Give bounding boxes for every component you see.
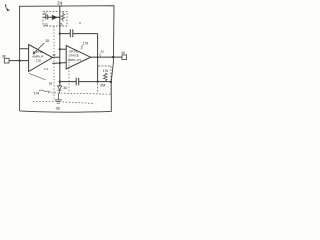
dashed vertical mid — [68, 59, 70, 94]
wire input — [9, 49, 29, 61]
svg-text:30: 30 — [44, 12, 48, 16]
diode arrow — [52, 16, 56, 20]
wire output — [91, 56, 122, 58]
svg-text:42: 42 — [101, 50, 105, 54]
wire bottom feedback — [60, 81, 111, 83]
label 2M — [100, 83, 105, 87]
node A — [59, 17, 61, 19]
svg-text:34: 34 — [63, 86, 67, 90]
stray mark — [79, 22, 81, 24]
dashed bus A — [48, 93, 111, 94]
diode D2 — [58, 86, 62, 94]
svg-text:38: 38 — [2, 54, 6, 58]
label 42 leader — [101, 50, 105, 54]
svg-text:174: 174 — [33, 91, 39, 95]
label 176 — [83, 42, 89, 46]
svg-text:176: 176 — [83, 42, 89, 46]
svg-text:28: 28 — [45, 39, 49, 43]
capacitor C2 — [70, 29, 73, 37]
outer amplifier box — [20, 6, 114, 112]
op-amp U2 — [66, 46, 90, 69]
gain arrow 28 — [33, 43, 44, 54]
wire (feedback top) — [60, 34, 98, 82]
svg-text:36: 36 — [56, 107, 60, 111]
svg-text:b-1: b-1 — [44, 67, 48, 71]
svg-text:AMPL 172: AMPL 172 — [68, 58, 82, 62]
capacitor 30 — [46, 15, 48, 20]
dashed vertical left — [53, 26, 55, 98]
svg-text:58: 58 — [49, 82, 53, 86]
svg-text:2M: 2M — [100, 83, 105, 87]
dashed box (input network) — [43, 11, 67, 26]
svg-text:170: 170 — [36, 59, 42, 63]
dashed bus B2 — [63, 102, 94, 104]
label 24 — [57, 1, 63, 6]
wire (feedback rail) — [59, 6, 61, 86]
svg-text:24: 24 — [57, 1, 63, 6]
svg-text:32: 32 — [44, 23, 48, 27]
svg-text:17k: 17k — [103, 69, 109, 73]
svg-text:40: 40 — [121, 51, 125, 55]
capacitor C3 — [76, 78, 79, 86]
wire U1 output — [52, 57, 66, 63]
dashed bus B — [33, 100, 56, 103]
resistor 26 — [61, 12, 64, 22]
output terminal 40 — [122, 55, 127, 60]
svg-text:52: 52 — [53, 53, 56, 57]
input terminal 38 — [4, 58, 9, 63]
cursor mark — [5, 5, 7, 9]
wire to U2 + — [60, 48, 66, 50]
resistor 17k — [104, 73, 108, 81]
leader 174 — [29, 73, 45, 79]
dashed box (output network) — [98, 66, 111, 94]
op-amp U1 — [29, 45, 53, 72]
label 58 — [49, 82, 53, 86]
wire — [43, 16, 59, 18]
ground — [55, 94, 62, 104]
